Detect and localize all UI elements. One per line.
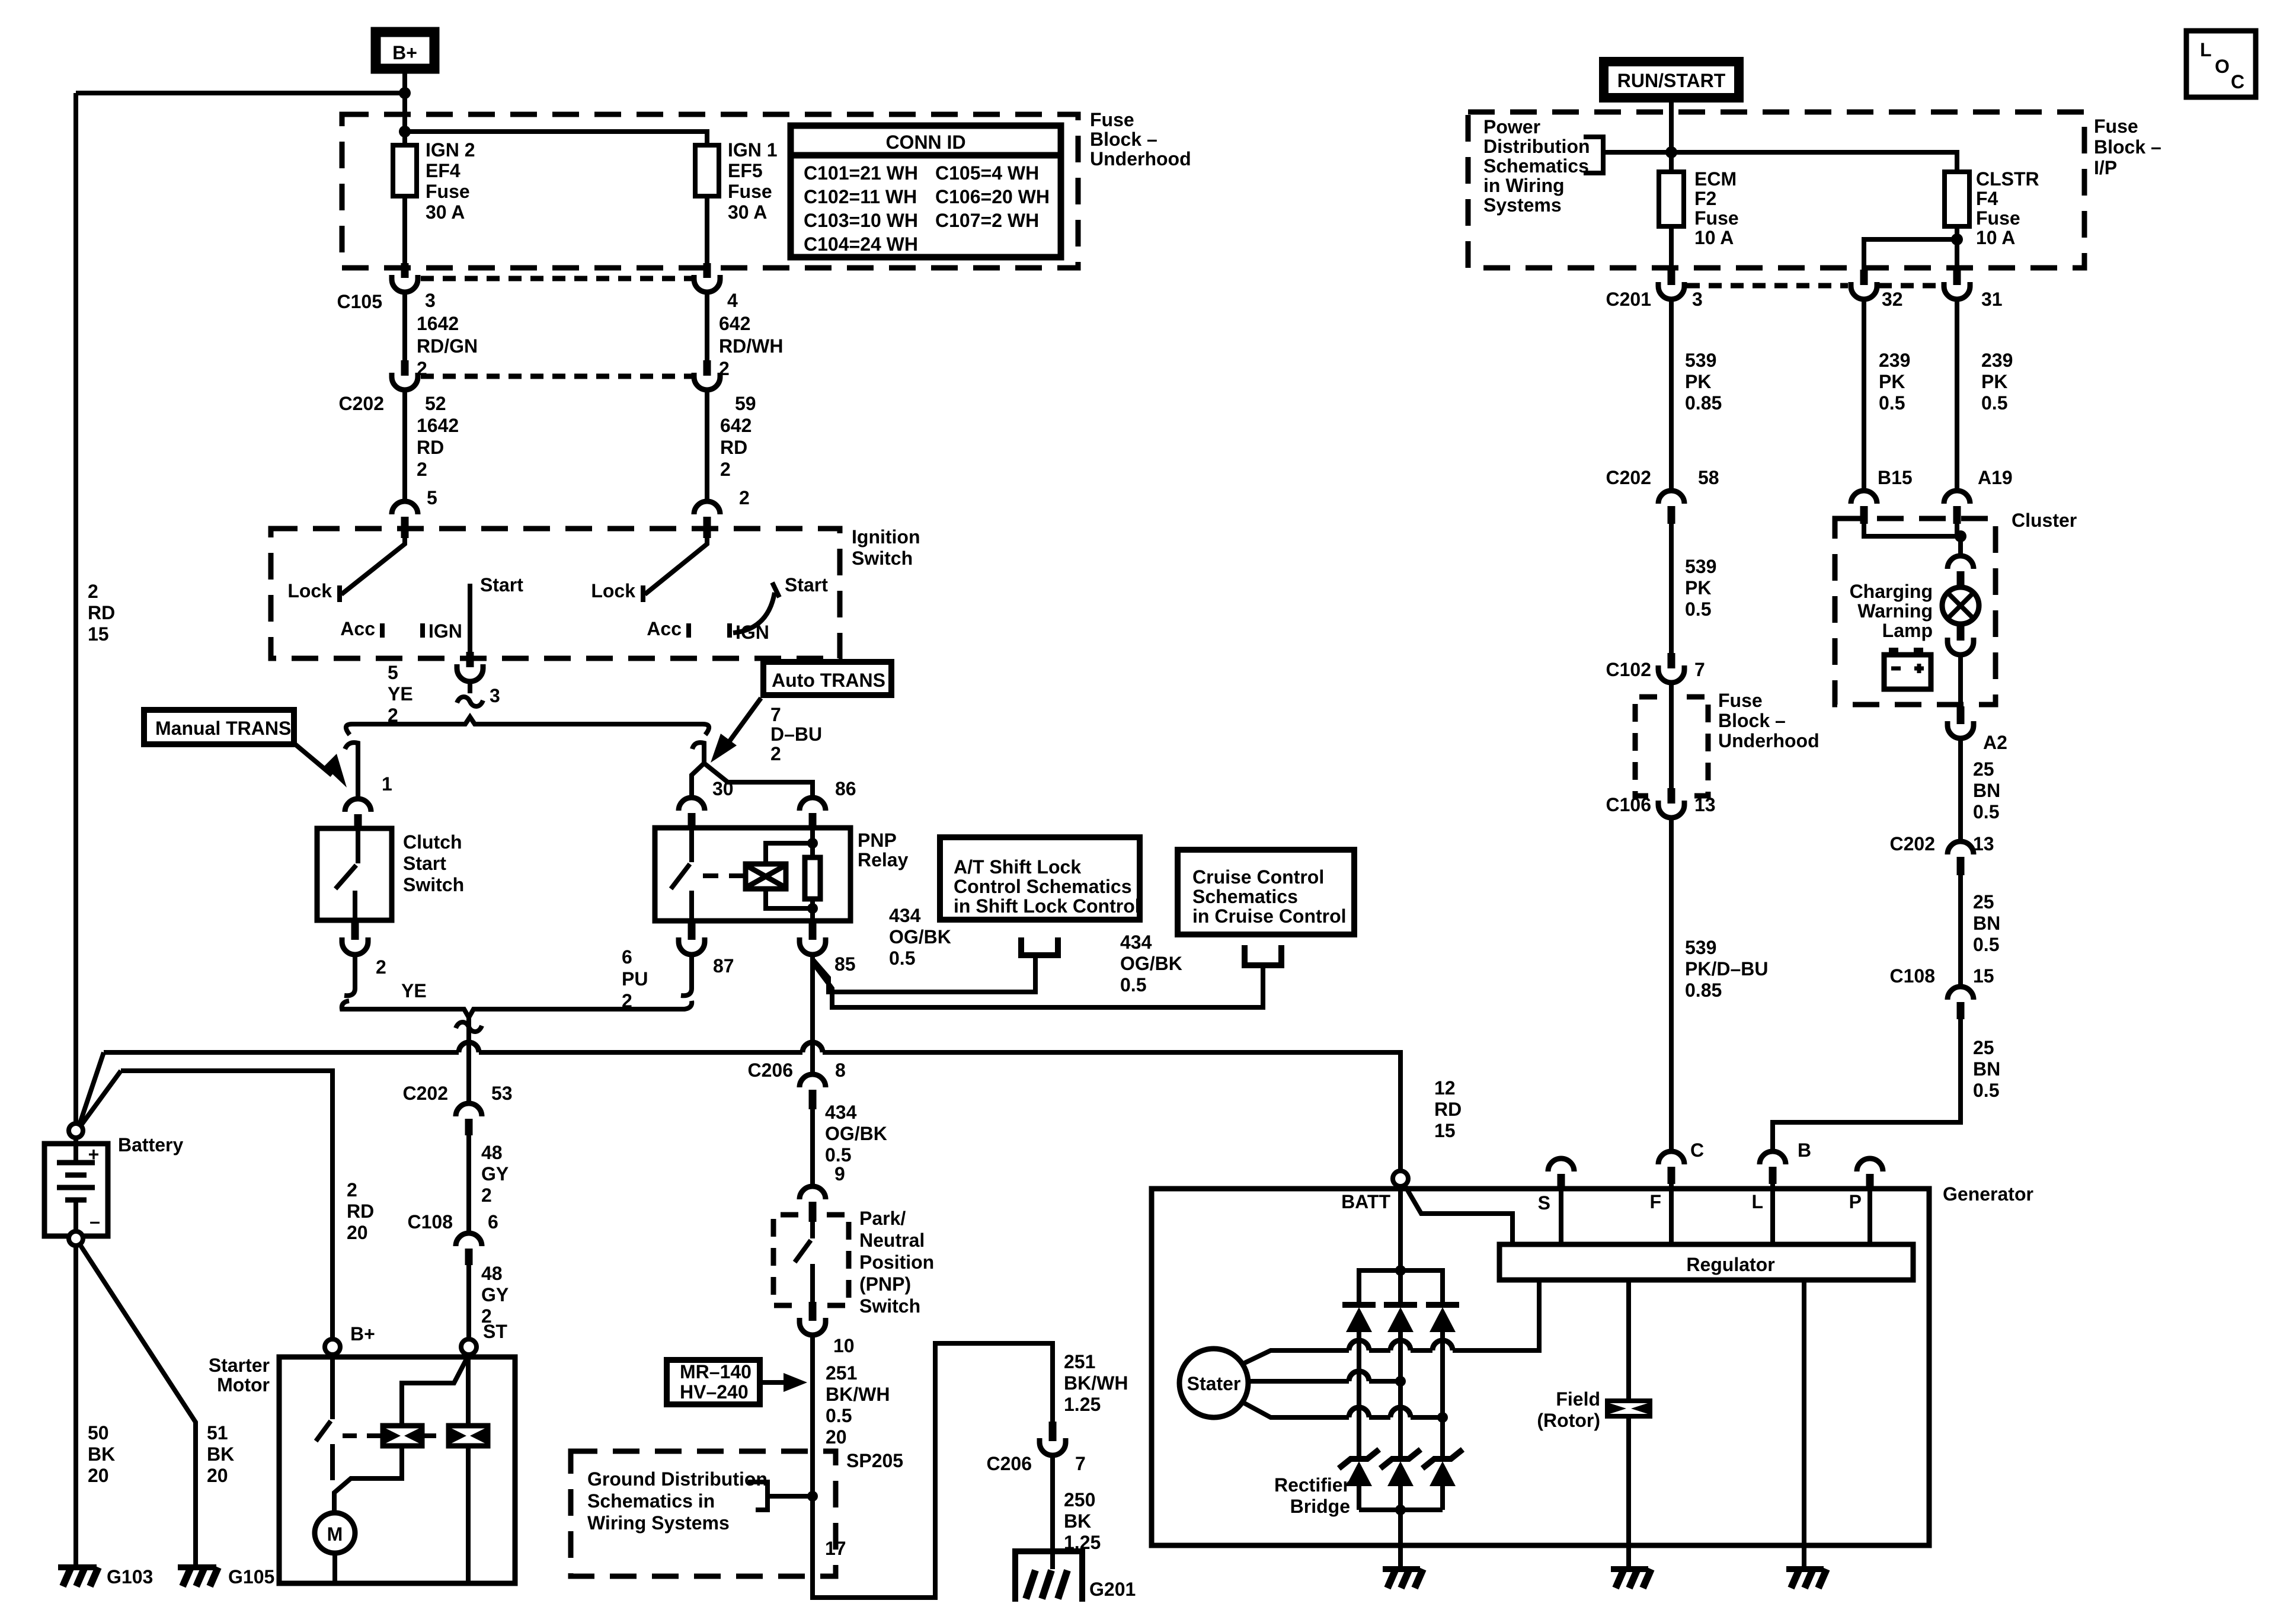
svg-text:C201: C201 (1606, 289, 1652, 310)
wire BATT to regulator (1405, 1185, 1512, 1244)
svg-text:642: 642 (719, 313, 750, 334)
svg-text:1642: 1642 (417, 415, 459, 436)
svg-text:IGN: IGN (428, 620, 462, 642)
svg-text:31: 31 (1981, 289, 2003, 310)
connector C206 pin 7 (1040, 1422, 1066, 1455)
svg-text:0.5: 0.5 (1973, 1080, 1999, 1101)
wire C201-32 down (1862, 299, 1866, 491)
svg-text:Start: Start (403, 853, 446, 874)
svg-text:M: M (327, 1523, 343, 1545)
stator lead middle (1248, 1371, 1406, 1387)
svg-text:Acc: Acc (647, 618, 682, 639)
connector lamp bottom (1948, 623, 1974, 655)
connector C106 pin 13 (1658, 788, 1684, 818)
wire SP205 to C206-7 (813, 1343, 1053, 1598)
wire C202-52 down to ignition (402, 390, 407, 501)
svg-text:EF5: EF5 (728, 160, 763, 181)
svg-text:Warning: Warning (1857, 600, 1933, 622)
wire C206-7 to G201 (1050, 1455, 1055, 1569)
label Rectifier Bridge (1274, 1474, 1350, 1517)
svg-text:15: 15 (1434, 1120, 1456, 1141)
svg-text:RD: RD (88, 602, 115, 623)
bracket to wire (748, 1482, 818, 1510)
ground generator 3 (1786, 1569, 1827, 1588)
connector into ignition switch right (694, 501, 720, 538)
connector PNP pin 10 (800, 1302, 826, 1335)
connector C102 pin 7 (1658, 653, 1684, 683)
starter switch (316, 1355, 332, 1480)
svg-text:RD: RD (1434, 1099, 1462, 1120)
generator box (1152, 1189, 1929, 1545)
wire A2 to C202-13 (1958, 738, 1963, 841)
label PNP Relay (858, 830, 909, 870)
svg-text:Fuse: Fuse (1694, 207, 1739, 229)
connector relay pin 87 (679, 922, 705, 996)
PNP switch contacts (795, 1222, 813, 1304)
stator circle (1179, 1349, 1248, 1417)
svg-text:ST: ST (483, 1321, 507, 1342)
svg-text:C105=4 WH: C105=4 WH (935, 162, 1039, 184)
wire C202-13 to C108-15 (1958, 875, 1963, 987)
svg-text:87: 87 (713, 955, 734, 977)
dashed link C202 (421, 374, 692, 379)
CONN ID table (791, 126, 1061, 257)
label 251 BK/WH 1.25 (1064, 1351, 1128, 1415)
svg-text:C202: C202 (403, 1083, 449, 1104)
svg-text:RD: RD (417, 437, 444, 458)
svg-text:Park/: Park/ (859, 1208, 906, 1229)
fuse IGN1 EF5 30A (695, 145, 719, 196)
svg-text:50: 50 (88, 1422, 109, 1443)
svg-text:CONN ID: CONN ID (885, 132, 965, 153)
wire 434 to cruise staple (814, 965, 1263, 1007)
svg-text:G103: G103 (107, 1566, 153, 1587)
Start contact left (468, 584, 472, 662)
fuse ECM F2 10A (1659, 172, 1684, 226)
connector C201 pin 3 (1658, 270, 1684, 299)
junction dot cluster (1955, 530, 1966, 542)
diode top 1 (1342, 1305, 1376, 1459)
wire merge to C202-53 (466, 1017, 471, 1103)
svg-text:Start: Start (785, 574, 828, 596)
wire CLSTR fuse down (1955, 226, 1959, 271)
wire C206-8 to 9 (810, 1109, 815, 1186)
svg-text:Control Schematics: Control Schematics (954, 876, 1132, 897)
svg-text:Field: Field (1556, 1388, 1600, 1410)
junction dot rectifier top (1395, 1265, 1406, 1276)
dashed link C201 (1687, 283, 1848, 289)
connector C202 pin 13 (1948, 841, 1974, 875)
svg-text:15: 15 (1973, 965, 1994, 987)
svg-text:GY: GY (481, 1163, 509, 1185)
diode bottom 2 (1380, 1449, 1421, 1510)
svg-text:Regulator: Regulator (1686, 1254, 1774, 1275)
connector A2 (1948, 706, 1974, 738)
svg-text:RD/GN: RD/GN (417, 335, 478, 357)
svg-text:C206: C206 (748, 1060, 794, 1081)
wire RUN/START down (1669, 98, 1674, 172)
svg-text:Schematics: Schematics (1192, 886, 1298, 907)
svg-text:D–BU: D–BU (770, 724, 822, 745)
ignition switch arm left (341, 538, 405, 594)
field coil bowtie (1607, 1401, 1650, 1416)
label 25 BN 0.5 third (1973, 1037, 2000, 1101)
svg-text:5: 5 (388, 662, 398, 683)
connector C202 pin 53 (456, 1103, 482, 1135)
svg-text:539: 539 (1685, 937, 1716, 958)
label 25 BN 0.5 (1973, 758, 2000, 822)
svg-text:3: 3 (490, 685, 500, 706)
wire 434 to shift lock staple (813, 958, 1035, 992)
svg-text:0.5: 0.5 (1973, 934, 1999, 955)
label 51 BK 20 (207, 1422, 234, 1486)
connector relay pin 85 (800, 922, 826, 955)
wire rectifier to ground (1398, 1510, 1403, 1567)
clutch switch contacts (335, 828, 358, 920)
ground generator 1 (1383, 1569, 1423, 1588)
label Ground Distribution Schematics in Wiring Systems (587, 1468, 768, 1534)
wire left rail 2 RD 15 (73, 93, 78, 1124)
svg-text:Schematics: Schematics (1483, 155, 1589, 177)
svg-text:RUN/START: RUN/START (1617, 70, 1726, 91)
svg-text:+: + (88, 1144, 100, 1165)
svg-text:Ground Distribution: Ground Distribution (587, 1468, 768, 1490)
svg-text:L: L (2200, 39, 2212, 60)
battery icon in cluster (1884, 648, 1931, 689)
svg-text:C102: C102 (1606, 659, 1652, 680)
starter dashed link 2 (422, 1433, 449, 1438)
ground G103 (58, 1566, 153, 1587)
wire YE bus to relay (692, 742, 813, 797)
connector clutch pin 2 (342, 922, 368, 996)
Manual TRANS arrow (295, 744, 347, 788)
svg-text:EF4: EF4 (426, 160, 461, 181)
fuse CLSTR F4 10A (1945, 172, 1969, 226)
svg-text:BK/WH: BK/WH (826, 1384, 890, 1405)
svg-text:2: 2 (347, 1179, 357, 1201)
svg-text:85: 85 (834, 953, 856, 975)
svg-text:C206: C206 (987, 1453, 1032, 1474)
wire battery to starter B+ (121, 1071, 332, 1339)
svg-text:OG/BK: OG/BK (889, 926, 951, 948)
wire cross link to CLSTR fuse (1603, 152, 1957, 172)
svg-text:BN: BN (1973, 1058, 2000, 1080)
connector C108 pin 6 (456, 1233, 482, 1265)
svg-text:0.5: 0.5 (889, 948, 915, 969)
svg-text:Ignition: Ignition (852, 526, 920, 548)
svg-text:20: 20 (347, 1222, 368, 1243)
svg-text:52: 52 (425, 393, 446, 414)
relay coil (738, 864, 786, 889)
regulator box (1499, 1244, 1913, 1280)
junction dot (1665, 146, 1677, 158)
Auto TRANS arrow (711, 698, 761, 763)
Lock contact left (337, 585, 342, 602)
svg-text:O: O (2215, 56, 2230, 77)
svg-text:1642: 1642 (417, 313, 459, 334)
svg-text:48: 48 (481, 1263, 503, 1284)
rectifier top bus (1359, 1270, 1443, 1305)
svg-text:7: 7 (1694, 659, 1705, 680)
connector C206 pin 8 (800, 1074, 826, 1109)
connector PNP pin 9 (800, 1186, 826, 1222)
svg-text:0.5: 0.5 (826, 1405, 852, 1426)
svg-text:Clutch: Clutch (403, 831, 462, 853)
svg-text:OG/BK: OG/BK (825, 1123, 887, 1144)
label Clutch Start Switch (403, 831, 464, 895)
ignition switch dashed box (271, 529, 840, 658)
starter motor box (279, 1357, 515, 1583)
svg-text:10 A: 10 A (1976, 227, 2015, 248)
wire battery minus to G105 (81, 1246, 196, 1565)
svg-text:Underhood: Underhood (1718, 730, 1819, 751)
svg-text:ECM: ECM (1694, 168, 1737, 190)
svg-text:BK: BK (88, 1443, 115, 1465)
wire A19 into cluster (1955, 524, 1959, 536)
MR-140 arrow (760, 1373, 807, 1392)
svg-text:C202: C202 (1890, 833, 1936, 854)
svg-text:Generator: Generator (1943, 1183, 2033, 1205)
svg-text:1: 1 (382, 773, 392, 795)
svg-text:PK/D–BU: PK/D–BU (1685, 958, 1768, 980)
label 50 BK 20 (88, 1422, 115, 1486)
fuse block underhood dashed box (342, 114, 1078, 268)
label 2 RD 20 (347, 1179, 374, 1243)
svg-text:C104=24 WH: C104=24 WH (804, 233, 918, 255)
svg-text:IGN 1: IGN 1 (728, 139, 778, 161)
connector C201 pin 31 (1944, 270, 1970, 299)
wire to IGN1 fuse (405, 132, 707, 264)
wire C202-59 down to ignition (705, 390, 709, 501)
svg-text:L: L (1751, 1191, 1763, 1212)
regulator right ground wire (1802, 1280, 1806, 1567)
connector cluster A19 (1944, 491, 1970, 524)
svg-text:Motor: Motor (217, 1374, 270, 1395)
svg-text:Fuse: Fuse (1718, 690, 1763, 711)
IGN contact left (420, 623, 425, 638)
svg-text:20: 20 (826, 1426, 847, 1448)
wire ST to coil1 (402, 1355, 469, 1426)
wire top horizontal to left rail (76, 91, 405, 95)
svg-text:3: 3 (1692, 289, 1703, 310)
svg-text:(PNP): (PNP) (859, 1273, 911, 1295)
wire label 642 RD 2 (720, 415, 752, 480)
starter motor M (315, 1513, 355, 1583)
Start contact right (772, 582, 779, 597)
svg-text:C: C (2231, 71, 2244, 92)
svg-text:Lock: Lock (287, 580, 332, 601)
PNP switch dashed box (773, 1215, 849, 1305)
connector B / L pin (1760, 1151, 1786, 1184)
svg-text:Position: Position (859, 1251, 934, 1273)
wire C102-7 through fuse block (1669, 683, 1674, 789)
svg-text:Rectifier: Rectifier (1274, 1474, 1350, 1496)
starter solenoid coil 2 (449, 1426, 488, 1446)
svg-text:BK: BK (207, 1443, 234, 1465)
svg-text:CLSTR: CLSTR (1976, 168, 2039, 190)
Cruise Control callout box (1178, 850, 1354, 934)
label Park/Neutral Position (PNP) Switch (859, 1208, 934, 1317)
Lock contact right (641, 585, 645, 602)
svg-text:Fuse: Fuse (2094, 116, 2138, 137)
battery minus terminal (69, 1231, 83, 1246)
cluster dashed box (1835, 518, 1996, 705)
label 539 PK 0.85 (1685, 350, 1722, 414)
svg-text:Lamp: Lamp (1882, 620, 1933, 641)
svg-text:51: 51 (207, 1422, 228, 1443)
svg-text:F: F (1649, 1191, 1661, 1212)
wire label 642 RD/WH 2 (719, 313, 783, 379)
svg-text:2: 2 (417, 459, 427, 480)
wire pin 10 down to SP205 (810, 1335, 815, 1598)
Auto TRANS callout box (763, 662, 891, 695)
svg-text:C202: C202 (1606, 467, 1652, 488)
label 25 BN 0.5 second (1973, 891, 2000, 955)
svg-text:C106=20 WH: C106=20 WH (935, 186, 1050, 207)
connector into ignition switch left (392, 501, 418, 538)
svg-text:A/T Shift Lock: A/T Shift Lock (954, 856, 1081, 878)
svg-text:YE: YE (388, 683, 413, 705)
svg-text:53: 53 (491, 1083, 513, 1104)
small fuse block underhood dashed box (1635, 697, 1657, 796)
svg-text:239: 239 (1981, 350, 2013, 371)
connector C105 pin 3 (392, 263, 418, 292)
diode top 3 (1426, 1305, 1459, 1459)
svg-text:25: 25 (1973, 891, 1994, 913)
svg-text:Acc: Acc (340, 618, 375, 639)
svg-text:C202: C202 (339, 393, 385, 414)
svg-text:250: 250 (1064, 1489, 1095, 1510)
svg-text:Schematics in: Schematics in (587, 1490, 715, 1512)
svg-text:6: 6 (488, 1211, 498, 1233)
svg-text:0.85: 0.85 (1685, 980, 1722, 1001)
wire C105-3 to C202-52 (402, 292, 407, 361)
label 539 PK 0.5 (1685, 556, 1716, 620)
svg-text:251: 251 (826, 1362, 857, 1384)
svg-text:BN: BN (1973, 780, 2000, 801)
svg-text:B: B (1798, 1140, 1811, 1161)
diagonal battery to rail (79, 1052, 104, 1125)
battery plus terminal (69, 1124, 83, 1138)
svg-text:GY: GY (481, 1284, 509, 1305)
wire CLSTR to pin32 (1864, 239, 1957, 271)
label 48 GY 2 second (481, 1263, 509, 1327)
svg-text:BK: BK (1064, 1510, 1091, 1532)
label 239 PK 0.5 col31 (1981, 350, 2013, 414)
ignition switch arm right (645, 538, 707, 594)
svg-text:642: 642 (720, 415, 752, 436)
svg-text:C: C (1690, 1140, 1704, 1161)
wire C201-31 down (1955, 299, 1959, 491)
svg-text:13: 13 (1973, 833, 1994, 854)
fuse IGN2 EF4 30A (393, 145, 417, 196)
svg-text:C101=21 WH: C101=21 WH (804, 162, 918, 184)
diode bottom 1 (1339, 1449, 1379, 1510)
svg-text:C108: C108 (408, 1211, 453, 1233)
svg-text:S: S (1538, 1192, 1550, 1214)
svg-text:9: 9 (834, 1163, 845, 1185)
wire C202-58 to C102-7 (1669, 524, 1674, 654)
svg-text:C108: C108 (1890, 965, 1936, 987)
svg-text:1.25: 1.25 (1064, 1394, 1101, 1415)
LOC symbol box (2186, 31, 2256, 97)
wire pin 85 down (810, 955, 815, 1076)
svg-text:Neutral: Neutral (859, 1230, 925, 1251)
relay resistor (805, 828, 820, 921)
terminal B+ (376, 32, 434, 69)
wire C108-15 to generator B (1773, 1019, 1961, 1150)
label 539 PK/D-BU 0.85 (1685, 937, 1768, 1001)
svg-text:Fuse: Fuse (728, 181, 772, 202)
svg-text:7: 7 (1075, 1453, 1086, 1474)
connector cluster B15 (1851, 491, 1877, 524)
relay dashed link (703, 873, 741, 878)
Manual TRANS callout box (144, 710, 294, 744)
label 250 BK 1.25 (1064, 1489, 1101, 1553)
connector C108 pin 15 (1948, 987, 1974, 1019)
svg-text:2: 2 (88, 581, 98, 602)
svg-text:0.5: 0.5 (1879, 392, 1905, 414)
wire C201-3 down (1669, 299, 1674, 491)
svg-text:Cluster: Cluster (2012, 510, 2077, 531)
svg-text:0.5: 0.5 (1120, 974, 1146, 996)
svg-text:PU: PU (622, 968, 648, 990)
junction dot at top horizontal (399, 87, 411, 99)
svg-text:7: 7 (770, 704, 781, 725)
svg-text:Stater: Stater (1187, 1373, 1241, 1394)
wire ECM fuse down (1669, 226, 1674, 271)
svg-text:539: 539 (1685, 556, 1716, 577)
svg-text:2: 2 (770, 743, 781, 764)
starter ST ring (461, 1339, 477, 1355)
svg-text:Switch: Switch (859, 1295, 920, 1317)
splice squiggle 2 (456, 1022, 482, 1032)
svg-text:0.85: 0.85 (1685, 392, 1722, 414)
svg-text:B+: B+ (350, 1323, 375, 1345)
svg-text:PK: PK (1685, 371, 1711, 392)
junction dots on pin86 branch (807, 838, 818, 849)
svg-text:PK: PK (1685, 577, 1711, 598)
svg-text:2: 2 (720, 459, 731, 480)
svg-text:I/P: I/P (2094, 157, 2117, 178)
diagonal battery to starter feed (81, 1071, 121, 1126)
svg-text:Fuse: Fuse (1976, 207, 2020, 229)
svg-text:48: 48 (481, 1142, 503, 1163)
svg-text:Block –: Block – (2094, 136, 2161, 158)
wire label 1642 RD 2 (417, 415, 459, 480)
connector C202 pin 58 (1658, 491, 1684, 524)
bracket power distribution (1584, 137, 1603, 173)
staple to cruise (1245, 945, 1281, 965)
label Field (Rotor) (1537, 1388, 1600, 1431)
wire lamp to cluster bottom (1958, 655, 1963, 706)
svg-text:PNP: PNP (858, 830, 897, 851)
svg-text:32: 32 (1882, 289, 1903, 310)
Acc contact right (686, 623, 691, 638)
label 434 OG/BK 0.5 second (1120, 932, 1182, 996)
svg-text:Relay: Relay (858, 849, 909, 870)
svg-text:C107=2 WH: C107=2 WH (935, 210, 1039, 231)
Acc contact left (380, 623, 385, 638)
svg-text:RD/WH: RD/WH (719, 335, 783, 357)
connector relay pin 86 (800, 798, 826, 829)
label 48 GY 2 (481, 1142, 509, 1206)
fuse block I/P dashed box (1468, 112, 2084, 268)
label 7 D-BU 2 (770, 704, 822, 764)
svg-text:Cruise Control: Cruise Control (1192, 866, 1324, 888)
svg-text:RD: RD (347, 1201, 374, 1222)
svg-text:Power: Power (1483, 116, 1540, 137)
